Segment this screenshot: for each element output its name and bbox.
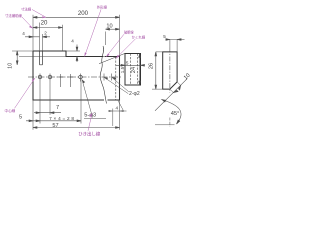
45 deg arc (162, 100, 181, 125)
center line main (28, 76, 122, 78)
dimension 57 (33, 127, 120, 129)
svg-text:5: 5 (163, 34, 166, 39)
dimension 10 chamfer 45deg line (155, 79, 187, 111)
svg-text:7×4=28: 7×4=28 (49, 116, 76, 121)
leader of break-line label (106, 34, 124, 57)
middle hidden line b (137, 54, 139, 86)
svg-text:5: 5 (126, 60, 129, 65)
ext lines right view (152, 40, 177, 90)
right view center line (169, 48, 171, 93)
part outline main view (33, 51, 120, 100)
svg-text:ひき出し線: ひき出し線 (78, 130, 101, 137)
svg-text:200: 200 (78, 10, 89, 17)
svg-text:7: 7 (56, 105, 59, 111)
dimension 10 right (106, 28, 120, 30)
svg-text:4: 4 (22, 31, 25, 36)
hole phi2 b center tick (111, 74, 113, 81)
middle hidden line a (130, 54, 132, 86)
leader 2-phi2 (104, 77, 129, 93)
horizontal reference line (155, 124, 175, 126)
dimension 200 (33, 16, 120, 18)
svg-text:2-φ2: 2-φ2 (129, 91, 140, 97)
extension lines bottom (33, 79, 120, 130)
projection line (99, 54, 125, 64)
svg-text:寸法補助線: 寸法補助線 (5, 13, 23, 18)
dimension 10 left (16, 51, 18, 65)
extension lines top (33, 15, 120, 57)
svg-text:45°: 45° (171, 111, 180, 117)
svg-text:4: 4 (116, 105, 119, 110)
leader 5-phi3 (82, 80, 106, 119)
dimension 4 right edge (108, 100, 127, 126)
svg-text:2: 2 (44, 31, 47, 36)
vertical center reference stub (169, 118, 171, 127)
hole 1 (38, 75, 42, 79)
hole phi2 a center tick (103, 74, 105, 81)
leader of leader-line label (88, 113, 92, 131)
leader of outline label (85, 10, 102, 57)
dimension 7x4=28 (26, 120, 81, 122)
hole 2 (48, 75, 52, 79)
leader of center-line label (15, 78, 36, 108)
hidden line main (115, 57, 117, 100)
dimension 7 (34, 112, 61, 114)
slot (40, 51, 43, 65)
svg-text:外形線: 外形線 (97, 5, 108, 10)
svg-text:中心線: 中心線 (5, 108, 16, 113)
leader of hidden-line label (116, 39, 136, 59)
svg-text:かくれ線: かくれ線 (132, 35, 146, 40)
right view (163, 48, 177, 93)
svg-text:20: 20 (41, 19, 48, 26)
extension 4 step dim (66, 50, 80, 52)
svg-text:10: 10 (7, 63, 13, 69)
svg-text:1.5: 1.5 (120, 66, 125, 73)
chamfer ext ticks (170, 82, 181, 93)
middle view outline (125, 54, 141, 86)
svg-text:57: 57 (52, 123, 58, 129)
extension 10 right dim (105, 32, 107, 46)
svg-text:4: 4 (71, 38, 74, 43)
hole 5 (79, 75, 83, 79)
right view outline with chamfer (163, 52, 177, 89)
dimension 5 middle top (116, 64, 145, 66)
svg-text:寸法線: 寸法線 (21, 7, 32, 12)
svg-text:破断線: 破断線 (124, 30, 134, 35)
dimension 5 right view (166, 39, 185, 41)
dimension 24 middle (139, 54, 141, 86)
svg-text:10: 10 (106, 24, 112, 30)
leader of extension-line label (22, 17, 33, 29)
middle view (125, 54, 141, 86)
hole 4 cross (68, 74, 74, 87)
svg-text:24: 24 (131, 67, 137, 73)
dimension 4 slot offset (25, 36, 50, 38)
leader of dimension-line label (32, 10, 46, 18)
wire break line wavy (100, 46, 106, 104)
extension left 10 dim (12, 51, 66, 57)
dimension 4 step (76, 45, 78, 63)
dimension 20 (33, 27, 63, 29)
hole 3 cross (58, 74, 64, 87)
svg-text:26: 26 (148, 63, 154, 69)
dimension 26 (155, 52, 157, 89)
svg-text:5: 5 (19, 114, 22, 120)
